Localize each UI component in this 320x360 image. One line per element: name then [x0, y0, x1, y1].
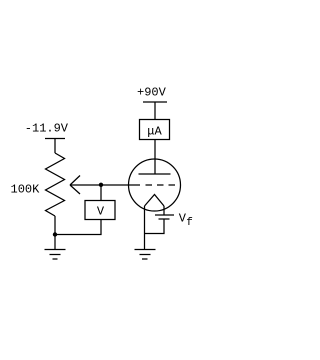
wire filament left leg to ground — [144, 206, 146, 250]
wire terminal to resistor top — [54, 139, 56, 154]
wire junction to voltmeter — [100, 185, 102, 201]
wire resistor bottom to ground — [54, 216, 56, 250]
svg-text:f: f — [186, 217, 193, 229]
svg-text:100K: 100K — [11, 183, 41, 197]
svg-text:+90V: +90V — [137, 86, 167, 100]
junction dot wiper/voltmeter — [99, 183, 103, 187]
svg-text:V: V — [97, 205, 105, 219]
tube envelope V1 — [129, 159, 181, 211]
microammeter M1 — [140, 120, 170, 140]
control grid (dashed) — [146, 184, 176, 186]
node +90V supply terminal — [143, 101, 167, 103]
ground right — [135, 250, 156, 260]
potentiometer wiper arrow — [70, 176, 140, 195]
wire meter to plate — [154, 140, 156, 175]
svg-text:-11.9V: -11.9V — [25, 122, 69, 136]
label Vf — [179, 211, 193, 229]
wire terminal to meter — [154, 102, 156, 120]
svg-text:μA: μA — [147, 125, 162, 139]
plate (anode) — [139, 173, 171, 175]
wire voltmeter bottom to ground bus — [55, 220, 101, 235]
filament cathode — [145, 195, 165, 207]
voltmeter V — [85, 201, 115, 220]
junction dot resistor bottom — [53, 232, 57, 236]
resistor R1 100K (potentiometer body) — [46, 153, 65, 216]
wire filament right leg to battery — [163, 206, 165, 215]
ground left — [45, 250, 66, 260]
battery Vf — [155, 215, 174, 219]
node -11.9V supply terminal — [45, 138, 65, 140]
wire battery to filament left leg — [145, 219, 165, 234]
